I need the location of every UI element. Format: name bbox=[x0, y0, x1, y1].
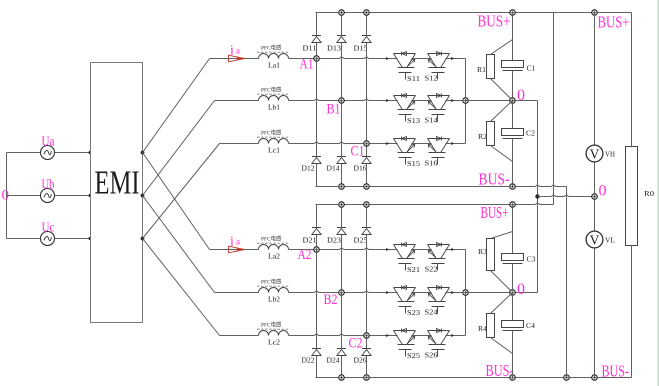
node on BUS+ at divider bbox=[510, 10, 515, 15]
svg-text:i: i bbox=[230, 234, 234, 249]
flow arrowhead bbox=[386, 142, 389, 145]
svg-text:D12: D12 bbox=[302, 165, 316, 173]
label C1 bbox=[527, 65, 537, 73]
wire: column D11 upper bbox=[316, 13, 318, 36]
svg-text:S16: S16 bbox=[425, 158, 438, 167]
diode D11 bbox=[312, 36, 321, 43]
resistor R3 bbox=[487, 239, 495, 271]
node: top collector junction bbox=[463, 98, 468, 103]
label VL bbox=[605, 238, 615, 245]
switch S11 (IGBT with antiparallel diode) bbox=[394, 52, 421, 83]
node on bottom BUS+ at D25 bbox=[364, 202, 369, 207]
inductor Lb2 bbox=[259, 288, 289, 293]
flow arrowhead bbox=[386, 291, 389, 294]
svg-text:BUS-: BUS- bbox=[486, 361, 514, 380]
wire: row Lb2 left segment bbox=[215, 292, 259, 294]
wire: top converter BUS- rail bbox=[316, 185, 567, 187]
node A1 bbox=[314, 56, 319, 61]
wire: BUS+ top rail bbox=[316, 12, 632, 14]
junction EMI output b bbox=[141, 194, 145, 198]
label R3 bbox=[478, 248, 488, 256]
node on top BUS- at D14 bbox=[339, 184, 344, 189]
wire: phase b to row B2 (diagonal) bbox=[143, 196, 215, 293]
capacitor C1 bbox=[502, 61, 524, 71]
wire: C3 to 0 node bbox=[512, 264, 514, 293]
wire: D12 to lower bus bbox=[316, 164, 318, 187]
svg-text:R4: R4 bbox=[478, 325, 488, 333]
current arrow i_a bbox=[229, 55, 245, 62]
page right border (green) bbox=[657, 0, 659, 386]
svg-text:D14: D14 bbox=[327, 165, 341, 173]
flow arrowhead bbox=[451, 142, 454, 145]
label R0 bbox=[644, 190, 655, 198]
label R4 bbox=[478, 325, 488, 333]
diode D21 bbox=[312, 228, 321, 235]
node on BUS- at link C bbox=[564, 375, 569, 380]
label VH bbox=[605, 152, 615, 159]
label BUS+ (top left) bbox=[478, 12, 511, 31]
label D13 bbox=[327, 45, 342, 53]
label Lb1 bbox=[268, 103, 280, 112]
svg-text:0: 0 bbox=[517, 87, 525, 104]
svg-text:PFC电感: PFC电感 bbox=[261, 321, 282, 329]
wire: switch pair to collector bbox=[446, 335, 466, 337]
wire: A1 to D12 bbox=[316, 59, 318, 157]
label D15 bbox=[354, 45, 369, 53]
wire: branch to R3 bbox=[491, 232, 513, 239]
wire: B2 to D24 bbox=[341, 293, 343, 349]
svg-text:D26: D26 bbox=[354, 357, 368, 365]
svg-text:BUS+: BUS+ bbox=[598, 13, 630, 32]
inductor Lc2 bbox=[259, 331, 289, 336]
node BUS+ of bottom converter bbox=[510, 202, 515, 207]
junction at EMI input Uc bbox=[89, 237, 93, 241]
AC source Uc bbox=[41, 232, 55, 246]
svg-text:S24: S24 bbox=[425, 307, 438, 316]
label C1 bbox=[351, 144, 365, 160]
diode D12 bbox=[312, 157, 321, 164]
wire: between switch pair bbox=[412, 100, 432, 102]
label D21 bbox=[303, 237, 318, 245]
flow arrowhead bbox=[386, 334, 389, 337]
wire: between switch pair bbox=[412, 58, 432, 60]
wire: R0 upper lead bbox=[631, 13, 633, 147]
wire: phase a to row A1 (diagonal) bbox=[143, 59, 210, 153]
label Lc1 bbox=[268, 146, 280, 155]
wire: O to R2 bbox=[491, 101, 513, 122]
svg-text:PFC电感: PFC电感 bbox=[261, 278, 282, 286]
svg-text:D22: D22 bbox=[302, 357, 316, 365]
wire: bottom switch collector vertical bbox=[465, 250, 467, 336]
wire: between switch pair bbox=[412, 335, 432, 337]
node on BUS+ at D15 bbox=[364, 10, 369, 15]
svg-text:0: 0 bbox=[599, 182, 607, 199]
wire: C1 to O node bbox=[512, 71, 514, 101]
diode D25 bbox=[362, 228, 371, 235]
svg-text:a: a bbox=[236, 237, 240, 247]
label D25 bbox=[354, 237, 369, 245]
diode D14 bbox=[337, 157, 346, 164]
flow arrowhead bbox=[386, 99, 389, 102]
wire: row La1 coil to node bbox=[289, 58, 317, 60]
node A2 bbox=[314, 247, 319, 252]
wire: phase c to row C2 (diagonal) bbox=[143, 239, 220, 336]
node B1 bbox=[339, 98, 344, 103]
label BUS- (bottom left) bbox=[486, 361, 514, 380]
AC source Ua bbox=[41, 146, 55, 160]
svg-text:S15: S15 bbox=[407, 159, 420, 168]
inductor Lc1 bbox=[259, 139, 289, 144]
label D26 bbox=[354, 357, 368, 365]
label C3 bbox=[527, 256, 537, 264]
wire: D24 to bottom bus bbox=[341, 356, 343, 378]
wire: 0 to R4 bbox=[491, 293, 513, 314]
label D14 bbox=[327, 165, 341, 173]
PFC label for La1 bbox=[257, 44, 290, 53]
wire: row to switch pair bbox=[342, 291, 398, 293]
junction at EMI input Ub bbox=[89, 194, 93, 198]
label R1 bbox=[477, 66, 487, 74]
svg-text:Lc2: Lc2 bbox=[268, 338, 280, 347]
wire: Ub source leads bbox=[7, 195, 91, 197]
node on BUS+ at meter line bbox=[592, 10, 597, 15]
node 0 (bottom divider midpoint) bbox=[510, 290, 515, 295]
svg-text:i: i bbox=[230, 43, 234, 58]
label La1 bbox=[268, 61, 280, 70]
wire: C2 to D26 bbox=[366, 336, 368, 349]
svg-text:D11: D11 bbox=[303, 45, 318, 53]
diode D13 bbox=[337, 36, 346, 43]
svg-text:PFC电感: PFC电感 bbox=[261, 235, 282, 243]
diode D22 bbox=[312, 349, 321, 356]
wire: D23 to node B2 bbox=[341, 235, 343, 293]
AC source Ub bbox=[41, 189, 55, 203]
wire: D15 to node C1 bbox=[366, 43, 368, 144]
wire: D26 to bottom bus bbox=[366, 356, 368, 378]
node on BUS- at meter line bbox=[592, 375, 597, 380]
node BUS- of top converter bbox=[510, 184, 515, 189]
svg-text:R1: R1 bbox=[477, 66, 487, 74]
svg-text:Lb2: Lb2 bbox=[268, 295, 280, 304]
EMI label bbox=[95, 165, 140, 202]
wire: top collector to neutral O bbox=[466, 100, 538, 102]
svg-text:D25: D25 bbox=[354, 237, 369, 245]
wire: row to switch pair bbox=[317, 57, 398, 59]
label BUS+ (top right) bbox=[598, 13, 630, 32]
switch S14 (IGBT with antiparallel diode, mirrored) bbox=[425, 94, 450, 125]
svg-text:S12: S12 bbox=[425, 73, 438, 82]
svg-text:BUS-: BUS- bbox=[602, 362, 630, 381]
wire: row to switch pair bbox=[367, 335, 398, 337]
wire: D14 to lower bus bbox=[341, 164, 343, 187]
node on top BUS- at D16 bbox=[364, 184, 369, 189]
node on BUS- at D26 bbox=[364, 375, 369, 380]
wire: switch pair to collector bbox=[446, 249, 466, 251]
label BUS- (top converter) bbox=[479, 170, 510, 189]
svg-text:EMI: EMI bbox=[95, 165, 140, 202]
label Lb2 bbox=[268, 295, 280, 304]
wire: R4 to BUS- bbox=[491, 338, 513, 378]
svg-text:C2: C2 bbox=[526, 130, 536, 138]
svg-text:D16: D16 bbox=[354, 165, 368, 173]
node on BUS- at divider bbox=[510, 375, 515, 380]
label D23 bbox=[327, 237, 342, 245]
wire: row Lb1 coil to node bbox=[289, 99, 342, 101]
wire: switch pair to collector bbox=[446, 58, 466, 60]
label Ua bbox=[42, 134, 55, 149]
wire: O down to C2 bbox=[512, 101, 514, 129]
PFC label for La2 bbox=[257, 235, 290, 244]
label R2 bbox=[478, 133, 488, 141]
diode D16 bbox=[362, 157, 371, 164]
flow arrowhead bbox=[451, 248, 454, 251]
wire: row La1 left segment bbox=[210, 58, 259, 60]
svg-text:BUS+: BUS+ bbox=[481, 203, 509, 222]
wire: B1 to D14 bbox=[341, 101, 343, 157]
svg-text:S25: S25 bbox=[407, 351, 420, 360]
label D16 bbox=[354, 165, 368, 173]
flow arrowhead bbox=[451, 57, 454, 60]
wire: phase b to row B1 (diagonal) bbox=[143, 101, 215, 196]
diode D23 bbox=[337, 228, 346, 235]
switch S26 (IGBT with antiparallel diode, mirrored) bbox=[425, 329, 450, 360]
current arrow i_a bbox=[229, 246, 245, 253]
resistor R1 bbox=[487, 55, 495, 79]
svg-text:Ua: Ua bbox=[42, 134, 55, 149]
node O (top divider midpoint) bbox=[510, 98, 515, 103]
label 0 (bottom divider) bbox=[517, 281, 525, 298]
svg-text:D24: D24 bbox=[327, 357, 341, 365]
switch S12 (IGBT with antiparallel diode, mirrored) bbox=[425, 52, 450, 83]
switch S24 (IGBT with antiparallel diode, mirrored) bbox=[425, 286, 450, 317]
wire: column D13 upper bbox=[341, 13, 343, 36]
svg-text:C1: C1 bbox=[527, 65, 537, 73]
node 0 (output midpoint) bbox=[592, 194, 597, 199]
PFC label for Lb1 bbox=[257, 86, 290, 95]
wire: switch pair to collector bbox=[446, 100, 466, 102]
flow arrowhead bbox=[451, 291, 454, 294]
svg-text:BUS+: BUS+ bbox=[478, 12, 511, 31]
label A1 bbox=[300, 57, 314, 73]
junction dot on neutral link bbox=[535, 194, 539, 198]
svg-text:BUS-: BUS- bbox=[479, 170, 510, 189]
wire: 0 down to C4 bbox=[512, 293, 514, 321]
wire: row Lc1 left segment bbox=[220, 143, 259, 145]
wire: C2 to BUS- bbox=[512, 139, 514, 187]
wire: R0 lower lead bbox=[631, 246, 633, 378]
label O (top divider) bbox=[517, 87, 525, 104]
label B1 bbox=[327, 102, 341, 118]
label i_a bbox=[230, 234, 240, 249]
svg-text:Ub: Ub bbox=[42, 177, 55, 192]
wire: row to switch pair bbox=[367, 143, 398, 145]
svg-text:D23: D23 bbox=[327, 237, 342, 245]
svg-text:R3: R3 bbox=[478, 248, 488, 256]
inductor Lb1 bbox=[259, 96, 289, 101]
switch S16 (IGBT with antiparallel diode, mirrored) bbox=[425, 137, 450, 168]
resistor R2 bbox=[487, 122, 495, 146]
svg-text:S14: S14 bbox=[425, 115, 438, 124]
junction at EMI input Ua bbox=[89, 151, 93, 155]
svg-text:PFC电感: PFC电感 bbox=[261, 129, 282, 137]
inductor La2 bbox=[259, 245, 289, 250]
wire: D13 to node B1 bbox=[341, 43, 343, 101]
label La2 bbox=[268, 252, 280, 261]
node on BUS+ at D13 bbox=[339, 10, 344, 15]
svg-text:Uc: Uc bbox=[42, 220, 55, 235]
svg-text:S23: S23 bbox=[407, 308, 420, 317]
svg-text:S26: S26 bbox=[425, 350, 438, 359]
wire: row Lc2 coil to node bbox=[289, 334, 367, 336]
switch S23 (IGBT with antiparallel diode) bbox=[394, 286, 421, 317]
svg-text:V: V bbox=[590, 146, 600, 161]
svg-text:S21: S21 bbox=[407, 265, 420, 274]
wire: row Lb2 coil to node bbox=[289, 291, 342, 293]
node C1 bbox=[364, 141, 369, 146]
svg-text:a: a bbox=[236, 46, 240, 56]
svg-text:S11: S11 bbox=[407, 74, 420, 83]
wire: branch to R1 bbox=[491, 40, 513, 55]
label C2 bbox=[526, 130, 536, 138]
diode D15 bbox=[362, 36, 371, 43]
capacitor C2 bbox=[502, 129, 524, 139]
voltmeter VL bbox=[586, 231, 603, 248]
capacitor C3 bbox=[502, 254, 524, 264]
node 0 label (neutral) bbox=[2, 188, 10, 204]
label D24 bbox=[327, 357, 341, 365]
wire: Ua source leads bbox=[7, 152, 91, 154]
wire: row Lc1 coil to node bbox=[289, 142, 367, 144]
wire: row Lc2 left segment bbox=[220, 335, 259, 337]
svg-text:A1: A1 bbox=[300, 57, 314, 73]
resistor R4 bbox=[487, 314, 495, 338]
wire: BUS- link vertical bbox=[566, 187, 568, 378]
wire: BUS+ down to C3 cap bbox=[512, 205, 514, 254]
capacitor C4 bbox=[502, 321, 524, 331]
switch S15 (IGBT with antiparallel diode) bbox=[394, 137, 421, 168]
inductor La1 bbox=[259, 54, 289, 59]
svg-text:R2: R2 bbox=[478, 133, 488, 141]
diode D24 bbox=[337, 349, 346, 356]
node B2 bbox=[339, 290, 344, 295]
node: bottom collector junction bbox=[463, 290, 468, 295]
wire: column D23 upper bbox=[341, 205, 343, 228]
wire: row La2 coil to node bbox=[289, 249, 317, 251]
label D12 bbox=[302, 165, 316, 173]
wire: meter line vertical bbox=[594, 13, 596, 378]
label Uc bbox=[42, 220, 55, 235]
wire: switch pair to collector bbox=[446, 292, 466, 294]
svg-text:PFC电感: PFC电感 bbox=[261, 44, 282, 52]
wire: bottom converter BUS+ rail bbox=[316, 203, 554, 205]
load resistor R0 bbox=[626, 147, 638, 246]
label C4 bbox=[526, 322, 536, 330]
label i_a bbox=[230, 43, 240, 58]
wire: row La2 left segment bbox=[210, 249, 259, 251]
label B2 bbox=[324, 292, 338, 308]
switch S13 (IGBT with antiparallel diode) bbox=[394, 94, 421, 125]
wire: bottom collector to neutral 0 bbox=[466, 292, 538, 294]
wire: top switch collector vertical bbox=[465, 59, 467, 144]
label A2 bbox=[298, 247, 312, 263]
flow arrowhead bbox=[451, 334, 454, 337]
wire: D11 to node A1 bbox=[316, 43, 318, 59]
svg-text:Lc1: Lc1 bbox=[268, 146, 280, 155]
voltmeter VH bbox=[586, 145, 603, 162]
PFC label for Lc1 bbox=[257, 129, 290, 138]
junction EMI output c bbox=[141, 237, 145, 241]
label Ub bbox=[42, 177, 55, 192]
wire: R3 to 0 node bbox=[491, 271, 513, 293]
wire: R2 to BUS- bbox=[491, 146, 513, 187]
wire: phase a to row A2 (diagonal) bbox=[143, 153, 210, 250]
wire: column D15 upper bbox=[366, 13, 368, 36]
switch S25 (IGBT with antiparallel diode) bbox=[394, 329, 421, 360]
wire: neutral link vertical (O to 0) bbox=[537, 101, 539, 293]
label 0 (output midpoint) bbox=[599, 182, 607, 199]
svg-text:S22: S22 bbox=[425, 264, 438, 273]
PFC label for Lc2 bbox=[257, 321, 290, 330]
PFC label for Lb2 bbox=[257, 278, 290, 287]
wire: R1 to O node bbox=[491, 79, 513, 101]
node on bottom BUS+ at D23 bbox=[339, 202, 344, 207]
wire: neutral middle line to 0 node bbox=[538, 195, 595, 197]
wire: D21 to node A2 bbox=[316, 235, 318, 250]
svg-text:D21: D21 bbox=[303, 237, 318, 245]
node C2 bbox=[364, 333, 369, 338]
wire: D22 to bottom bus bbox=[316, 356, 318, 378]
wire: BUS- bottom rail bbox=[316, 377, 632, 379]
wire: BUS+ down to C1 cap bbox=[512, 13, 514, 61]
wire: C4 to BUS- bbox=[512, 331, 514, 378]
svg-text:S13: S13 bbox=[407, 116, 420, 125]
svg-text:La2: La2 bbox=[268, 252, 280, 261]
flow arrowhead bbox=[386, 57, 389, 60]
svg-text:C1: C1 bbox=[351, 144, 365, 160]
svg-text:Lb1: Lb1 bbox=[268, 103, 280, 112]
svg-text:C4: C4 bbox=[526, 322, 536, 330]
wire: row Lb1 left segment bbox=[215, 100, 259, 102]
flow arrowhead bbox=[451, 99, 454, 102]
wire: neutral rail (left) bbox=[6, 153, 8, 239]
label BUS+ (bottom converter) bbox=[481, 203, 509, 222]
wire: Uc source leads bbox=[7, 238, 91, 240]
wire: D16 to lower bus bbox=[366, 164, 368, 187]
flow arrowhead bbox=[386, 248, 389, 251]
wire: switch pair to collector bbox=[446, 143, 466, 145]
wire: row to switch pair bbox=[317, 248, 398, 250]
wire: column D25 upper bbox=[366, 205, 368, 228]
svg-text:V: V bbox=[590, 232, 600, 247]
junction EMI output a bbox=[141, 151, 145, 155]
svg-text:C3: C3 bbox=[527, 256, 537, 264]
svg-text:R0: R0 bbox=[644, 190, 655, 198]
wire: C1 to D16 bbox=[366, 144, 368, 157]
wire: D25 to node C2 bbox=[366, 235, 368, 336]
svg-text:PFC电感: PFC电感 bbox=[261, 86, 282, 94]
svg-text:D15: D15 bbox=[354, 45, 369, 53]
wire: BUS+ link vertical bbox=[553, 13, 555, 205]
label D11 bbox=[303, 45, 318, 53]
node on BUS- at D24 bbox=[339, 375, 344, 380]
svg-text:0: 0 bbox=[517, 281, 525, 298]
switch S22 (IGBT with antiparallel diode, mirrored) bbox=[425, 243, 450, 274]
wire: phase c to row C1 (diagonal) bbox=[143, 144, 220, 239]
EMI filter block bbox=[91, 63, 143, 323]
switch S21 (IGBT with antiparallel diode) bbox=[394, 243, 421, 274]
svg-text:D13: D13 bbox=[327, 45, 342, 53]
wire: A2 to D22 bbox=[316, 250, 318, 349]
